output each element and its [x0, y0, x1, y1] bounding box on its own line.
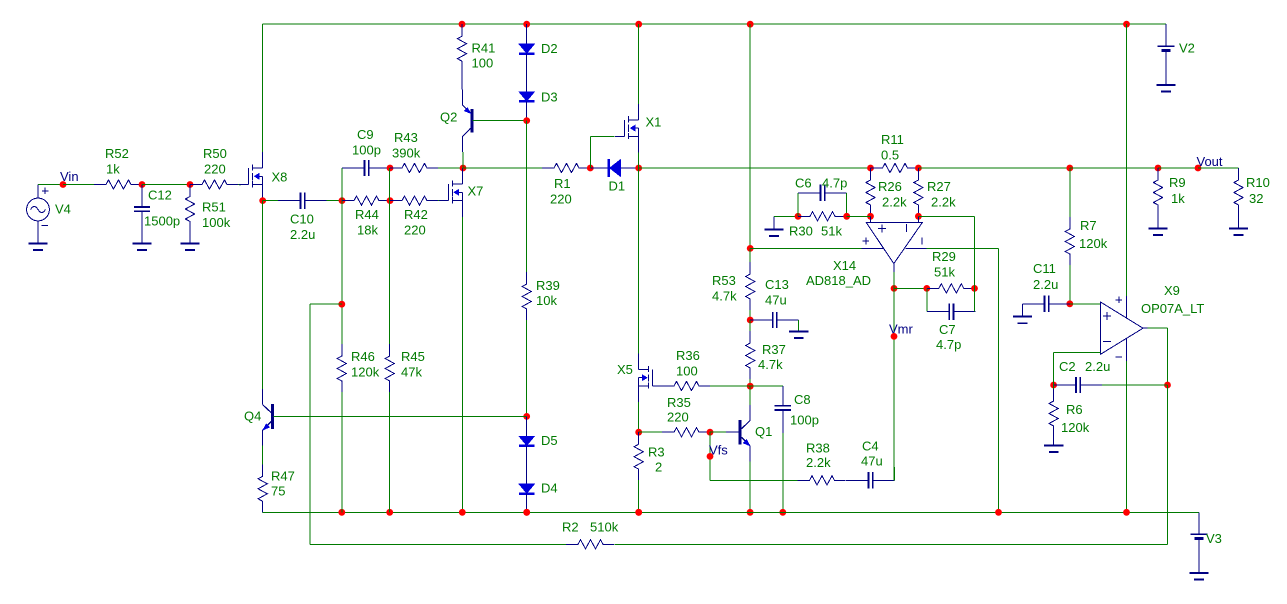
wire V2 column to OP07 V+: [1126, 24, 1128, 296]
ground of C13: [789, 332, 808, 339]
label C8 value: [790, 413, 819, 428]
label R35 value: [667, 410, 689, 425]
svg-text:C2: C2: [1059, 359, 1076, 374]
junction R29 left / C7 left: [923, 285, 930, 292]
label R1 name: [554, 176, 571, 191]
junction Q2 base / D3 node: [523, 117, 530, 124]
svg-text:220: 220: [550, 192, 572, 207]
junction bus / AD818 V-: [995, 509, 1002, 516]
label R6 name: [1066, 402, 1083, 417]
label D4 name: [541, 481, 558, 496]
wire C9 left riser: [341, 168, 343, 201]
label V2 name: [1179, 41, 1195, 56]
svg-text:R10: R10: [1246, 175, 1270, 190]
svg-text:120k: 120k: [351, 365, 380, 380]
label net Vin: [60, 169, 79, 184]
svg-text:X14: X14: [833, 258, 856, 273]
svg-text:510k: 510k: [590, 520, 619, 535]
svg-text:R47: R47: [271, 469, 295, 484]
svg-text:100p: 100p: [790, 413, 819, 428]
capacitor C6: [798, 185, 847, 201]
junction rail168 / R7: [1066, 165, 1073, 172]
junction X8 source node: [259, 197, 266, 204]
label X9 value: [1141, 301, 1204, 316]
svg-text:X9: X9: [1164, 283, 1180, 298]
mosfet X8: [239, 152, 263, 201]
svg-text:Vout: Vout: [1197, 154, 1223, 169]
label R30 value: [821, 224, 842, 239]
capacitor C11: [1023, 296, 1070, 312]
label R44 value: [357, 223, 378, 238]
junction C2 left node: [1050, 382, 1057, 389]
transistor Q4: [262, 389, 286, 446]
junction top rail / V2: [1123, 21, 1130, 28]
label R39 value: [536, 293, 557, 308]
svg-text:R2: R2: [562, 520, 579, 535]
wire C4 to Vmr column: [893, 467, 895, 480]
wire R46 column top: [341, 200, 343, 344]
junction rail168 / R26: [867, 165, 874, 172]
junction out / C2 node: [1164, 382, 1171, 389]
label R45 value: [401, 365, 422, 380]
capacitor C9: [342, 160, 391, 176]
svg-text:R37: R37: [762, 342, 786, 357]
svg-text:R52: R52: [105, 146, 129, 161]
svg-text:R6: R6: [1066, 402, 1083, 417]
label R51 name: [202, 200, 226, 215]
junction bus / OP07 V-: [1123, 509, 1130, 516]
svg-text:120k: 120k: [1079, 236, 1108, 251]
svg-text:2.2k: 2.2k: [882, 195, 907, 210]
resistor R53: [746, 248, 755, 320]
resistor R36: [662, 381, 750, 390]
junction X5 source / R35 / R3 node: [635, 429, 642, 436]
label R1 value: [550, 192, 572, 207]
label C13 value: [765, 293, 787, 308]
wire X1 drain to top rail: [638, 24, 640, 104]
mosfet X5: [639, 353, 663, 402]
label X5 name: [617, 362, 633, 377]
resistor R26: [866, 168, 875, 216]
resistor R10: [1234, 168, 1243, 228]
svg-text:R50: R50: [203, 146, 227, 161]
label R50 value: [204, 162, 226, 177]
svg-text:C7: C7: [939, 322, 956, 337]
svg-text:R36: R36: [676, 348, 700, 363]
wire X5 drain column: [638, 168, 640, 353]
junction top rail / D2: [523, 21, 530, 28]
svg-text:100: 100: [676, 364, 698, 379]
wire X8 to C10: [263, 200, 278, 202]
wire Q4 emitter to R47: [262, 446, 264, 465]
svg-text:1k: 1k: [106, 162, 120, 177]
wire rail168 to R9: [1070, 167, 1158, 169]
svg-text:4.7p: 4.7p: [936, 337, 961, 352]
label C4 value: [861, 454, 883, 469]
svg-text:R30: R30: [789, 224, 813, 239]
label R10 value: [1249, 191, 1263, 206]
ground of R6: [1044, 445, 1063, 452]
wire V+ column: [749, 24, 751, 248]
svg-text:4.7k: 4.7k: [758, 357, 783, 372]
resistor R37: [746, 320, 755, 386]
wire gnd to R30: [774, 215, 798, 217]
label D2 name: [541, 41, 558, 56]
wire R42 to X7 gate: [438, 200, 440, 202]
svg-text:X1: X1: [646, 115, 662, 130]
svg-text:R35: R35: [667, 395, 691, 410]
junction top rail / R41: [459, 21, 466, 28]
label X7 name: [468, 184, 484, 199]
resistor R27: [914, 168, 923, 216]
svg-text:R53: R53: [712, 273, 736, 288]
wire R35 to Q1 base: [710, 431, 726, 433]
label V4 name: [55, 202, 71, 217]
svg-text:D3: D3: [541, 90, 558, 105]
wire Vout to R10: [1198, 167, 1239, 169]
svg-text:100: 100: [472, 56, 494, 71]
svg-text:R46: R46: [351, 349, 375, 364]
label R37 value: [758, 357, 783, 372]
svg-text:32: 32: [1249, 191, 1263, 206]
svg-text:2.2k: 2.2k: [806, 455, 831, 470]
label C8 name: [794, 392, 811, 407]
svg-text:V3: V3: [1206, 531, 1222, 546]
label R27 value: [931, 195, 956, 210]
svg-text:R9: R9: [1169, 175, 1186, 190]
op-amp X14: [862, 216, 927, 272]
resistor R38: [798, 476, 846, 485]
resistor R7: [1065, 168, 1074, 304]
voltage source V4: [27, 185, 50, 244]
junction D4 / bus node: [523, 509, 530, 516]
wire R50 to X8 gate: [238, 184, 241, 186]
svg-text:C9: C9: [357, 127, 374, 142]
junction top rail / X1: [635, 21, 642, 28]
diode D3: [519, 72, 535, 120]
label R42 value: [404, 223, 426, 238]
label C4 name: [862, 439, 879, 454]
label R11 value: [881, 148, 899, 163]
svg-text:R45: R45: [401, 349, 425, 364]
wire Q2 base wire: [473, 120, 527, 122]
svg-text:Q1: Q1: [755, 424, 772, 439]
label Q4 name: [244, 409, 261, 424]
label D3 name: [541, 90, 558, 105]
label R29 value: [934, 265, 955, 280]
junction R44/R42/R45 node: [387, 197, 394, 204]
wire AD818 V- column: [998, 248, 1000, 512]
resistor R1: [542, 163, 590, 172]
junction R52/C12 node: [139, 181, 146, 188]
svg-text:X5: X5: [617, 362, 633, 377]
svg-text:C8: C8: [794, 392, 811, 407]
label R45 name: [401, 349, 425, 364]
junction rail168 / R27: [915, 165, 922, 172]
wire top rail: [263, 23, 1166, 25]
svg-text:C11: C11: [1033, 261, 1056, 276]
wire C8 top wire: [750, 385, 783, 387]
svg-text:X8: X8: [272, 170, 288, 185]
wire R2 rail west: [310, 543, 566, 545]
svg-text:AD818_AD: AD818_AD: [806, 273, 871, 288]
junction AD818 out node: [891, 285, 898, 292]
wire negative bus: [263, 511, 1199, 513]
svg-text:220: 220: [204, 162, 226, 177]
resistor R2: [566, 540, 614, 549]
wire rail168 to R7: [918, 167, 1069, 169]
capacitor C13: [750, 312, 799, 328]
wire OP07 out: [1148, 327, 1168, 329]
svg-text:D4: D4: [541, 481, 558, 496]
transistor Q2: [462, 89, 485, 152]
label C12 name: [148, 188, 172, 203]
svg-text:120k: 120k: [1061, 420, 1090, 435]
wire X1 source to rail: [638, 153, 640, 169]
wire X1 gate wire: [590, 135, 614, 137]
junction R7 / C11 node: [1066, 300, 1073, 307]
wire R2 rail east: [615, 543, 1168, 545]
label R52 value: [106, 162, 120, 177]
label X8 name: [272, 170, 288, 185]
junction R1/D1/X1 gate node: [587, 165, 594, 172]
svg-text:R26: R26: [878, 179, 902, 194]
svg-text:220: 220: [404, 223, 426, 238]
svg-text:51k: 51k: [934, 265, 955, 280]
wire C8 to bus: [782, 433, 784, 512]
svg-text:2.2u: 2.2u: [1033, 277, 1058, 292]
junction rail168 / Q2 / X7 node: [460, 165, 467, 172]
junction C8 / bus node: [779, 509, 786, 516]
label R39 name: [536, 278, 560, 293]
junction rail168 / R9: [1155, 165, 1162, 172]
label X9 name: [1164, 283, 1180, 298]
resistor R30: [798, 212, 846, 221]
wire C6 right riser: [846, 193, 848, 217]
wire AD818 out stub: [893, 272, 895, 288]
junction top rail / AD818 V+ column: [747, 21, 754, 28]
junction R46 / R2 tap node: [338, 301, 345, 308]
junction R30 right / C6 right: [843, 213, 850, 220]
wire C11 to In+: [1070, 303, 1101, 305]
svg-text:Q2: Q2: [440, 110, 457, 125]
wire out to R29: [894, 287, 927, 289]
ground of R10: [1229, 229, 1248, 236]
svg-text:R3: R3: [648, 445, 665, 460]
label C10 name: [290, 212, 314, 227]
svg-text:R38: R38: [806, 441, 830, 456]
svg-text:R41: R41: [472, 41, 496, 56]
junction Vmr flag dot: [891, 333, 898, 340]
svg-text:0.5: 0.5: [881, 148, 899, 163]
label R37 name: [762, 342, 786, 357]
svg-text:C4: C4: [862, 439, 879, 454]
wire bus to V3: [1198, 511, 1200, 513]
svg-text:100k: 100k: [202, 215, 231, 230]
label X14 value: [806, 273, 871, 288]
junction Q1 emitter / bus: [747, 509, 754, 516]
svg-text:R44: R44: [355, 207, 379, 222]
wire R41 to Q2 emitter: [461, 72, 463, 90]
label R41 name: [472, 41, 496, 56]
label C9 name: [357, 127, 374, 142]
label R9 name: [1169, 175, 1186, 190]
wire In- riser: [1053, 352, 1055, 385]
label R36 name: [676, 348, 700, 363]
label R3 value: [655, 460, 662, 475]
wire X7 source column: [461, 217, 463, 513]
junction bus / R45: [386, 509, 393, 516]
wire rail168 D1 to R11: [639, 167, 871, 169]
wire R30 to In+: [847, 215, 871, 217]
wire R43 to Q2C node: [438, 167, 463, 169]
wire AD818 V- supply: [927, 247, 999, 249]
wire C10 to node: [327, 200, 343, 202]
junction C9/R43 node: [387, 165, 394, 172]
ground of R9: [1148, 229, 1167, 236]
wire R39 to Q4 base row: [526, 320, 528, 416]
svg-text:47k: 47k: [401, 365, 422, 380]
wire R2 tap wire: [310, 303, 342, 305]
wire C12 to R51: [142, 184, 190, 186]
label X1 name: [646, 115, 662, 130]
voltage source V2: [1156, 24, 1175, 91]
resistor R50: [190, 180, 238, 189]
wire D3 node to R39: [526, 121, 528, 272]
junction R29 right / C7 right: [971, 285, 978, 292]
svg-text:OP07A_LT: OP07A_LT: [1141, 301, 1204, 316]
svg-text:R11: R11: [881, 132, 904, 147]
mosfet X7: [439, 168, 463, 217]
wire V4 to Vin: [38, 184, 63, 186]
junction R37 / R36 node: [747, 383, 754, 390]
label R53 value: [712, 289, 737, 304]
diode D5: [519, 416, 535, 464]
label R47 value: [271, 484, 285, 499]
wire X5 source to R35 node: [638, 402, 640, 432]
resistor R41: [457, 24, 466, 72]
resistor R35: [662, 428, 710, 437]
wire Q4 base wire: [274, 415, 527, 417]
wire Vin to R52: [63, 184, 94, 186]
svg-text:4.7k: 4.7k: [712, 289, 737, 304]
label C2 value: [1085, 359, 1110, 374]
svg-text:C10: C10: [290, 212, 314, 227]
label C7 name: [939, 322, 956, 337]
voltage source V3: [1189, 512, 1208, 579]
label C9 value: [352, 143, 381, 158]
label R47 name: [271, 469, 295, 484]
label C7 value: [936, 337, 961, 352]
label R44 name: [355, 207, 379, 222]
ground of R30: [764, 216, 783, 236]
svg-text:R27: R27: [927, 179, 951, 194]
capacitor C10: [278, 192, 327, 208]
label R42 name: [404, 207, 428, 222]
resistor R47: [258, 464, 267, 512]
capacitor C12: [134, 185, 150, 244]
label R6 value: [1061, 420, 1090, 435]
label C12 value: [144, 214, 180, 229]
wire Vfs row to R38: [710, 479, 798, 481]
wire In- feedback top: [918, 215, 974, 217]
svg-text:R39: R39: [536, 278, 560, 293]
junction bus / R3: [635, 509, 642, 516]
wire X7 drain to rail: [461, 167, 463, 169]
wire Q1 collector: [749, 386, 751, 405]
wire X5 node to R35: [639, 431, 662, 433]
svg-text:C6: C6: [795, 176, 812, 191]
wire C7 left riser: [926, 288, 928, 311]
label R26 name: [878, 179, 902, 194]
svg-text:390k: 390k: [392, 146, 421, 161]
label C6 name: [795, 176, 812, 191]
ground of V4: [28, 244, 47, 251]
wire C6 left riser: [797, 193, 799, 217]
label R41 value: [472, 56, 494, 71]
junction R53 / C13 node: [747, 317, 754, 324]
svg-text:C12: C12: [148, 188, 172, 203]
wire In- wire: [1054, 351, 1101, 353]
label R46 name: [351, 349, 375, 364]
svg-text:R51: R51: [202, 200, 226, 215]
svg-text:100p: 100p: [352, 143, 381, 158]
wire rail168 to Vout: [1158, 167, 1198, 169]
label net Vmr: [889, 322, 914, 337]
label net Vfs: [709, 443, 728, 458]
capacitor C7: [927, 303, 976, 319]
junction D1 / X1 source node: [635, 165, 642, 172]
label C6 value: [822, 176, 847, 191]
label R52 name: [105, 146, 129, 161]
junction R30 left / C6 left: [795, 213, 802, 220]
label R38 value: [806, 455, 831, 470]
label X14 name: [833, 258, 856, 273]
label R11 name: [881, 132, 904, 147]
wire C13 gnd riser: [798, 320, 800, 331]
svg-text:2.2u: 2.2u: [1085, 359, 1110, 374]
label R43 name: [394, 130, 418, 145]
label R50 name: [203, 146, 227, 161]
label C11 name: [1033, 261, 1056, 276]
wire C2 to out node: [1102, 384, 1168, 386]
resistor R43: [390, 163, 438, 172]
wire X8 drain column: [262, 24, 264, 152]
label R36 value: [676, 364, 698, 379]
svg-text:1500p: 1500p: [144, 214, 180, 229]
wire X1 gate riser: [589, 136, 591, 168]
label C11 value: [1033, 277, 1058, 292]
svg-text:R43: R43: [394, 130, 418, 145]
svg-text:R42: R42: [404, 207, 428, 222]
junction Vin node: [60, 181, 67, 188]
wire Q1 emitter to bus: [749, 461, 751, 512]
junction Vfs flag dot: [707, 453, 714, 460]
label D1 name: [609, 179, 626, 194]
label R46 value: [351, 365, 380, 380]
diode D4: [519, 464, 535, 512]
svg-text:C13: C13: [765, 277, 789, 292]
svg-text:47u: 47u: [861, 454, 883, 469]
wire Vfs wire: [709, 432, 711, 480]
wire In- feedback riser: [974, 216, 976, 288]
svg-text:4.7p: 4.7p: [822, 176, 847, 191]
svg-text:R29: R29: [932, 249, 956, 264]
junction Vout node: [1195, 165, 1202, 172]
label C10 value: [290, 227, 315, 242]
resistor R6: [1049, 385, 1058, 445]
svg-text:R1: R1: [554, 176, 571, 191]
